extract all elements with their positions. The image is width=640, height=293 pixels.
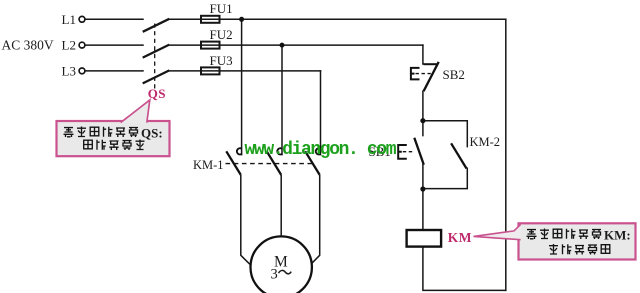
- wire: junction A to SB1: [422, 121, 424, 136]
- fuse FU3: [201, 67, 220, 74]
- motor M 3~: [251, 236, 312, 293]
- node: L1 / drop junction: [239, 17, 244, 22]
- KM-1 contact 2 fixed terminal hook: [277, 148, 282, 154]
- node A (junction dot): [420, 118, 425, 123]
- switch QS pole 3 blade: [143, 70, 170, 83]
- push button SB1 (NO) blade: [414, 138, 424, 165]
- wire: contact 1 to motor: [241, 175, 255, 269]
- svg-text:FU1: FU1: [210, 1, 233, 16]
- terminal L3: [79, 68, 85, 74]
- wire: KM-2 bottom to junction B: [423, 168, 467, 188]
- wire L1 from terminal to switch QS: [85, 18, 143, 20]
- tilde of 3~: [279, 270, 292, 273]
- wire L2 from QS through FU2 to control branch corner: [169, 44, 423, 46]
- KM callout pointer: [474, 224, 521, 239]
- QS callout text line 1: 基本文字符号QS:: [64, 125, 163, 140]
- wire: junction B to coil KM: [422, 189, 424, 230]
- wire drop W phase: [320, 71, 322, 155]
- svg-text:L2: L2: [62, 38, 76, 53]
- QS callout box: [57, 121, 170, 156]
- wire: branch junction A to KM-2: [423, 121, 467, 147]
- push button SB2 (NC): stop bar: [424, 63, 438, 65]
- SB1 actuator E: [398, 145, 407, 159]
- wire drop U phase: [241, 19, 243, 154]
- fuse FU2: [201, 42, 220, 49]
- KM-1 contact 3 fixed terminal hook: [316, 148, 321, 154]
- switch QS pole 2 blade: [143, 45, 170, 58]
- wire: contact 2 to motor: [280, 175, 282, 240]
- svg-text:QS:: QS:: [141, 125, 163, 140]
- KM-1 contact 1 blade: [226, 151, 241, 175]
- wire: SB2 to junction A: [422, 91, 424, 121]
- contactor contact KM-2 blade: [451, 143, 466, 168]
- svg-text:KM-1: KM-1: [193, 158, 224, 172]
- QS callout pointer: [121, 100, 150, 123]
- KM-1 mechanical link (dashed): [226, 163, 314, 165]
- wire: coil KM to bottom bus: [423, 247, 506, 291]
- SB1 actuator link (dashed): [403, 151, 414, 153]
- wire drop V phase: [281, 45, 283, 155]
- svg-text:FU3: FU3: [210, 53, 233, 68]
- node B (junction dot): [420, 186, 425, 191]
- svg-text:KM: KM: [448, 230, 472, 245]
- KM callout text line 2: 交流接触器: [549, 244, 610, 255]
- KM callout box: [519, 223, 636, 259]
- wire: L2 corner down to SB2: [422, 45, 424, 64]
- wire: SB1 to junction B: [422, 165, 424, 190]
- switch QS pole 1 blade: [143, 19, 170, 32]
- coil KM: [407, 230, 442, 247]
- svg-text:KM:: KM:: [604, 227, 631, 242]
- SB2 actuator link (dashed): [416, 73, 431, 75]
- wire L2 from terminal to switch QS: [85, 44, 143, 46]
- fuse FU1: [201, 16, 220, 23]
- terminal L1: [79, 16, 85, 22]
- KM-1 contact 3 blade: [305, 151, 320, 175]
- svg-text:SB2: SB2: [443, 67, 465, 82]
- SB2 actuator E: [411, 68, 420, 80]
- svg-text:3: 3: [271, 267, 278, 283]
- svg-text:KM-2: KM-2: [470, 135, 501, 149]
- svg-text:L3: L3: [62, 63, 76, 78]
- QS callout text line 2: 电源总开关: [84, 140, 145, 151]
- wire L3 from terminal to switch QS: [85, 70, 143, 72]
- wire: contact 3 to motor: [306, 175, 320, 269]
- SB2 blade: [424, 62, 439, 91]
- terminal L2: [79, 42, 85, 48]
- wire L3 from QS through FU3 to corner: [169, 70, 321, 72]
- node: L2 / drop junction: [280, 43, 285, 48]
- wire: right bus (L1 side): [505, 19, 507, 290]
- KM callout text line 1: 基本文字符号KM:: [527, 227, 631, 242]
- svg-text:FU2: FU2: [210, 27, 233, 42]
- wire L1 from QS through FU1 to right bus: [169, 18, 506, 20]
- svg-text:AC 380V: AC 380V: [2, 37, 54, 52]
- svg-text:L1: L1: [62, 12, 76, 27]
- switch QS mechanical link (dashed): [154, 24, 156, 89]
- KM-1 contact 1 fixed terminal hook: [237, 148, 242, 154]
- KM-1 contact 2 blade: [267, 151, 282, 175]
- svg-text:www.diangon. com: www.diangon. com: [245, 140, 397, 160]
